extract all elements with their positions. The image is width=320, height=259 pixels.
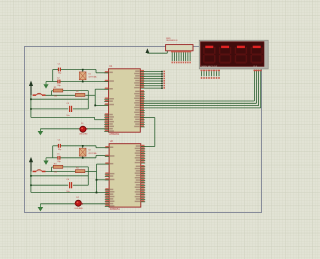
- svg-text:CRYSTAL: CRYSTAL: [88, 76, 97, 79]
- svg-text:10k: 10k: [54, 95, 57, 97]
- svg-text:10u: 10u: [66, 191, 69, 193]
- svg-text:AT89C51: AT89C51: [109, 133, 120, 136]
- svg-text:AT89C51: AT89C51: [110, 208, 121, 211]
- svg-text:RESPACK-8: RESPACK-8: [166, 39, 178, 42]
- svg-text:10k: 10k: [54, 172, 57, 174]
- svg-text:MINS SECS DP: MINS SECS DP: [202, 66, 218, 68]
- svg-text:LED-RED: LED-RED: [79, 134, 88, 136]
- svg-text:10u: 10u: [66, 115, 69, 117]
- svg-text:CLK: CLK: [253, 66, 258, 68]
- svg-text:LED-RED: LED-RED: [75, 208, 84, 210]
- svg-text:CRYSTAL: CRYSTAL: [88, 152, 97, 155]
